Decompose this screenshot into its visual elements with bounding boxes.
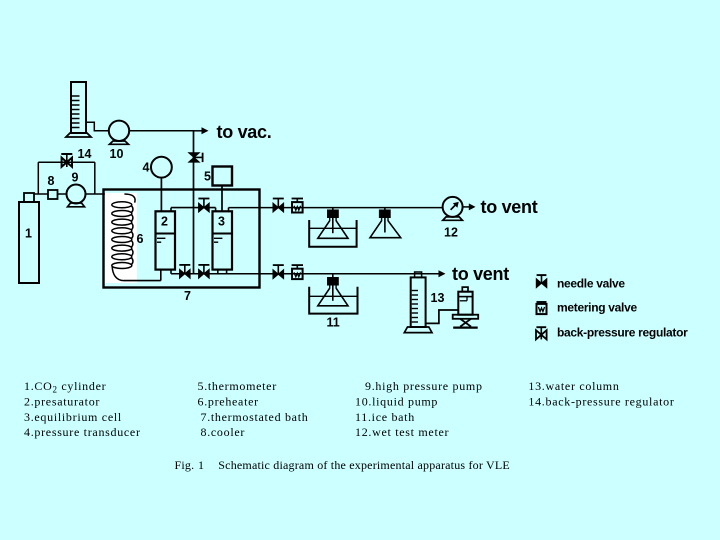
figure caption <box>175 458 510 472</box>
svg-text:3.equilibrium cell: 3.equilibrium cell <box>24 410 122 424</box>
svg-text:5.thermometer: 5.thermometer <box>198 379 277 393</box>
caption list column 3 <box>355 379 483 439</box>
arrow to vent (upper) <box>463 203 476 210</box>
svg-text:1: 1 <box>198 458 204 472</box>
wire bypass loop with valve 14 <box>38 162 95 194</box>
needle valve on vacuum line <box>189 153 200 162</box>
svg-text:Fig.: Fig. <box>175 458 195 472</box>
svg-text:10.liquid pump: 10.liquid pump <box>355 394 438 408</box>
needle valve upper outlet <box>273 199 284 213</box>
svg-text:9: 9 <box>72 170 79 184</box>
svg-text:8: 8 <box>48 174 55 188</box>
svg-text:11: 11 <box>327 316 340 330</box>
caption list column 1 <box>24 379 141 439</box>
svg-text:to vent: to vent <box>452 264 509 284</box>
thermostated bath 7 <box>104 190 260 288</box>
svg-text:4: 4 <box>143 160 150 174</box>
wire vessel3 top to outlet line <box>229 208 443 212</box>
svg-text:12.wet test meter: 12.wet test meter <box>355 425 449 439</box>
svg-text:6: 6 <box>137 232 144 246</box>
svg-text:8.cooler: 8.cooler <box>201 425 246 439</box>
arrow to vent (lower) <box>439 270 446 277</box>
svg-text:13.water column: 13.water column <box>528 379 619 393</box>
svg-text:to vac.: to vac. <box>217 122 272 142</box>
pressure transducer 4 <box>151 157 172 212</box>
presaturator 2 <box>156 211 176 269</box>
svg-text:5: 5 <box>204 169 211 183</box>
svg-text:11.ice bath: 11.ice bath <box>355 410 415 424</box>
needle valve bath bottom left <box>179 265 190 278</box>
svg-text:14: 14 <box>78 147 92 161</box>
legend back-pressure regulator symbol <box>536 327 547 339</box>
flask in ice bath 11 <box>309 274 357 314</box>
svg-text:7.thermostated bath: 7.thermostated bath <box>201 410 309 424</box>
legend metering valve symbol <box>537 302 547 314</box>
needle valve lower outlet <box>273 265 284 279</box>
water column 13 <box>404 272 432 333</box>
CO2 cylinder 1 <box>19 193 39 283</box>
svg-text:to vent: to vent <box>481 197 538 217</box>
flask 2nd (upper) <box>370 208 401 238</box>
high pressure pump 9 <box>67 185 86 207</box>
needle valve between vessels (top) <box>198 199 209 213</box>
caption list column 2 <box>198 379 309 439</box>
thermometer 5 <box>213 167 233 212</box>
wire pump 10 to vacuum junction <box>129 130 193 132</box>
svg-text:14.back-pressure regulator: 14.back-pressure regulator <box>528 394 674 408</box>
preheater coil 6 <box>112 194 135 281</box>
svg-text:1: 1 <box>25 227 32 241</box>
svg-text:13: 13 <box>431 291 445 305</box>
svg-text:3: 3 <box>218 215 225 229</box>
svg-text:6.preheater: 6.preheater <box>198 394 259 408</box>
equilibrium cell 3 <box>213 211 233 269</box>
svg-text:back-pressure regulator: back-pressure regulator <box>557 326 688 340</box>
back-pressure regulator stand device <box>453 287 479 328</box>
wire lower manifold <box>171 270 439 274</box>
svg-text:1.CO2 cylinder: 1.CO2 cylinder <box>24 379 106 395</box>
white backdrop behind coil <box>105 193 137 283</box>
wire pump 9 to preheater coil <box>86 193 125 195</box>
svg-text:10: 10 <box>110 147 124 161</box>
wire cooler to pump 9 <box>58 193 67 195</box>
svg-text:7: 7 <box>184 289 191 303</box>
metering valve lower outlet <box>292 265 303 279</box>
wire burette to pump 10 <box>86 122 109 131</box>
wire vessel2 top to inter-vessel valve line <box>171 208 216 212</box>
needle valve bath bottom right <box>198 265 209 278</box>
graduated cylinder (feed burette for liquid pump) <box>66 82 91 137</box>
caption list column 4 <box>528 379 674 408</box>
svg-text:metering valve: metering valve <box>557 301 637 315</box>
wire column 13 to regulator stand <box>426 310 459 323</box>
svg-text:9.high pressure pump: 9.high pressure pump <box>365 379 483 393</box>
svg-text:12: 12 <box>444 225 458 239</box>
cooler 8 <box>48 190 58 199</box>
svg-text:2.presaturator: 2.presaturator <box>24 394 100 408</box>
arrow to vac <box>194 127 209 134</box>
wire cylinder to cooler 8 <box>34 193 48 195</box>
back-pressure regulator 14 <box>61 154 72 167</box>
legend needle valve symbol <box>536 275 547 288</box>
wet test meter 12 <box>443 197 463 220</box>
svg-text:2: 2 <box>161 215 168 229</box>
liquid pump 10 <box>109 121 129 145</box>
metering valve upper outlet <box>292 199 303 213</box>
flask in ice bath (upper first) <box>309 208 356 247</box>
svg-text:Schematic diagram of the exper: Schematic diagram of the experimental ap… <box>218 458 510 472</box>
wire coil outlet to presaturator bottom <box>124 269 161 281</box>
svg-text:needle valve: needle valve <box>557 277 625 291</box>
svg-text:4.pressure transducer: 4.pressure transducer <box>24 425 141 439</box>
wire vacuum line vertical <box>193 131 195 274</box>
